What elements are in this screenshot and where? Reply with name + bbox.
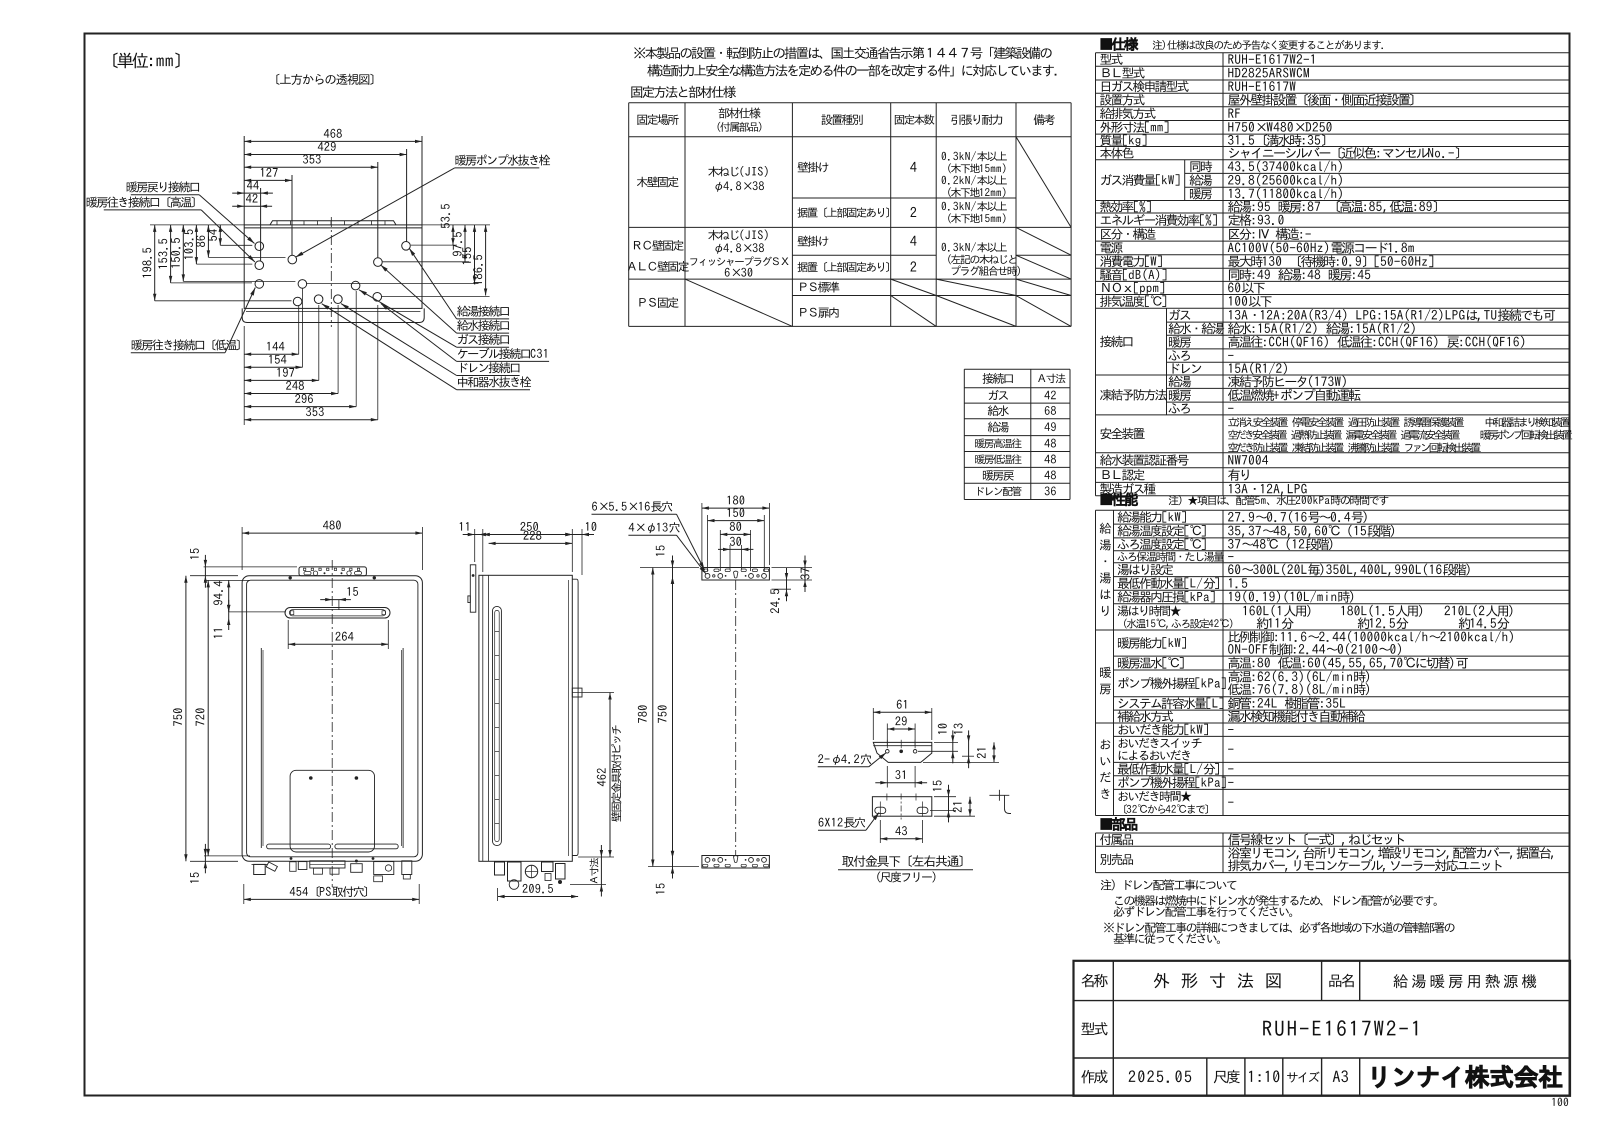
給湯接続口 — [457, 306, 509, 317]
port circle ケーブルC31 — [373, 293, 382, 302]
dim 15 — [190, 872, 199, 882]
dim 94.4 — [213, 581, 222, 605]
text 区分・構造 — [1101, 228, 1156, 240]
dim 21 — [953, 803, 962, 813]
front louver slot — [285, 608, 390, 619]
bottom dims of top view — [243, 326, 245, 425]
text − — [1228, 354, 1233, 357]
おいだき時間★ — [1118, 791, 1191, 802]
dim 54 left — [219, 225, 221, 245]
spec table grid — [1095, 53, 1097, 496]
暖房戻り接続口 — [127, 181, 199, 192]
text 35,37〜48,50,60℃ (15段階) — [1228, 525, 1394, 537]
dim 186.5 — [473, 255, 482, 285]
text 凍結予防ヒータ(173W) — [1228, 376, 1346, 388]
dim 15 rear top — [640, 567, 699, 569]
text 壁掛け — [798, 162, 829, 173]
耐力2a — [942, 201, 1007, 211]
給湯暖房用熱源機 — [1393, 974, 1536, 988]
text ドレン配管 — [978, 486, 1021, 496]
dim 264 — [287, 620, 289, 649]
text 13.7(11800kcal/h) — [1229, 188, 1342, 200]
page 100 — [1552, 1098, 1568, 1107]
text 給水 — [988, 405, 1009, 416]
取付金具下 — [842, 855, 962, 867]
text 13A・12A,LPG — [1229, 484, 1307, 496]
dim 54 — [208, 229, 217, 241]
耐力3c — [952, 266, 1020, 276]
text 給湯:95 暖房:87 〔高温:85,低温:89 — [1228, 201, 1437, 214]
A3 — [1333, 1070, 1348, 1082]
dim 186.5 — [485, 225, 487, 296]
spec sub 給湯 — [1190, 174, 1213, 186]
text ＰＳ固定 — [639, 297, 678, 308]
dim 43 — [879, 820, 881, 843]
text RF — [1228, 109, 1239, 118]
dim 127 — [261, 168, 278, 177]
dim 780 — [648, 567, 668, 569]
dim 720 front — [204, 579, 250, 581]
text 13A・12A:20A(R3/4) LPG:15 — [1229, 309, 1555, 322]
text 36 — [1045, 486, 1056, 495]
text 給排気方式 — [1100, 108, 1156, 120]
dim 353 top — [377, 162, 379, 258]
dim 750 front — [190, 575, 238, 577]
dim 150.5 left — [182, 225, 184, 282]
text ポンプ機外揚程[kPa] — [1118, 776, 1225, 788]
dim 11 — [460, 522, 469, 531]
text 信号線セット〔一式〕,ねじセット — [1228, 833, 1404, 846]
text 同時:49 給湯:48 暖房:45 — [1229, 269, 1370, 281]
spec sub ドレン — [1173, 363, 1202, 373]
名称 — [1081, 974, 1107, 987]
dim 15 bracket — [934, 796, 956, 798]
text RUH-E1617W — [1228, 81, 1295, 91]
フィッシャープラグSX — [690, 256, 788, 266]
text 給湯能力[kW] — [1118, 511, 1186, 523]
dim 127 — [291, 175, 293, 255]
text − — [1228, 767, 1233, 770]
text 接続口 — [1100, 336, 1132, 348]
text ＰＳ標準 — [800, 282, 839, 293]
text 設置種別 — [822, 114, 863, 125]
dim 209.5 — [497, 888, 499, 901]
text シャイニーシルバー〔近似色:マンセルNo.−〕 — [1229, 147, 1459, 159]
text 給水装置認証番号 — [1100, 454, 1189, 466]
dim 97.5 — [464, 225, 466, 262]
bracket upper outline — [873, 742, 932, 762]
port circle 暖房戻り — [255, 242, 264, 251]
dim 197 bottom — [318, 305, 320, 380]
dim 15 — [933, 780, 942, 790]
front bottom slots — [267, 844, 331, 849]
text 31.5〔満水時:35〕 — [1228, 134, 1325, 146]
暖房往き接続口高温 — [87, 197, 195, 208]
text 最低作動水量[L/分] — [1118, 763, 1219, 775]
text 外形寸法[mm] — [1100, 121, 1168, 133]
別売品1 — [1228, 847, 1553, 860]
dim 228 — [489, 542, 573, 544]
dim 153.5 left — [170, 225, 172, 283]
text 屋外壁掛設置〔後面・側面近接設置〕 — [1228, 94, 1413, 106]
dim 144 bottom — [298, 305, 300, 354]
grp3 だ — [1100, 772, 1110, 782]
耐力3a — [942, 242, 1007, 252]
text 付属品 — [1100, 834, 1133, 845]
dim 264 — [335, 632, 353, 641]
text NW7004 — [1228, 455, 1268, 465]
text 接続口 — [983, 373, 1013, 384]
dim 15 louver — [338, 600, 340, 610]
dim 21 bracket lower — [934, 815, 975, 817]
dim 53.5 — [452, 225, 454, 245]
中和器水抜き栓 — [458, 376, 531, 387]
木ねじ(JIS) — [708, 166, 767, 177]
text 最大時130 〔待機時:0.9〕[50-60Hz — [1228, 255, 1433, 267]
side top rear bracket — [470, 565, 476, 612]
text 60〜300L(20L毎)350L,400L,9 — [1228, 563, 1469, 576]
暖房能力1 — [1228, 631, 1513, 643]
front bottom fittings — [254, 864, 266, 874]
header ■仕様 — [1101, 37, 1138, 50]
dim 97.5 — [453, 232, 462, 256]
text 暖房温水[℃] — [1118, 657, 1184, 669]
note spec change — [1153, 40, 1383, 50]
dim 80 — [730, 522, 741, 531]
note perf — [1169, 495, 1389, 505]
grp1 は — [1101, 589, 1111, 599]
top view bottom tray — [242, 308, 424, 322]
text 最低作動水量[L/分] — [1118, 577, 1219, 589]
fixing table grid — [628, 103, 630, 327]
6x5.5x16長穴 — [592, 501, 672, 512]
dim 462 — [597, 768, 606, 786]
bracket lower outline — [872, 797, 931, 817]
text 19(0.19)(10L/min時) — [1229, 591, 1353, 603]
dim 43 — [895, 826, 907, 835]
dim 468 top — [243, 136, 245, 225]
暖房能力2 — [1228, 643, 1401, 655]
dim 21 — [977, 749, 986, 759]
dim 150.5 — [171, 238, 180, 268]
dim 61 — [897, 700, 906, 709]
dim 353 — [306, 407, 324, 416]
dim 180 — [701, 503, 703, 565]
型式 — [1081, 1022, 1107, 1035]
2-Φ4.2穴 — [818, 754, 871, 765]
text 43.5(37400kcal/h) — [1228, 160, 1342, 172]
text 2 — [910, 261, 916, 271]
text ガス — [989, 390, 1008, 400]
front top mounting plate — [299, 567, 366, 576]
おいだき時間 sub — [1124, 804, 1208, 814]
ガス接続口 — [458, 334, 509, 345]
dim 37 — [800, 568, 809, 579]
dim 296 bottom — [355, 291, 357, 407]
text − — [1228, 555, 1233, 558]
耐力2b — [948, 213, 1005, 223]
揚程1 — [1228, 671, 1369, 683]
front view outer body — [242, 576, 422, 862]
text 有り — [1228, 469, 1249, 481]
dim 209.5 — [523, 884, 553, 893]
dim 10 bracket — [934, 741, 958, 743]
text 騒音[dB(A)] — [1100, 269, 1166, 281]
dim 248 — [286, 381, 304, 390]
port circle ガス — [351, 281, 360, 290]
dim 480 front — [241, 527, 243, 570]
PS扉内 — [800, 307, 838, 318]
作成 — [1081, 1070, 1107, 1083]
ALC壁固定 — [628, 261, 689, 272]
text 固定場所 — [637, 114, 678, 125]
side view body — [479, 575, 572, 861]
text エネルギー消費効率[%] — [1101, 214, 1217, 226]
RC壁固定 — [634, 240, 684, 251]
φ4.8×38 — [715, 181, 764, 191]
単位mm — [113, 52, 179, 68]
port circle 暖房往き高温 — [255, 261, 264, 270]
front top screws — [289, 576, 292, 579]
dim 10 — [586, 522, 596, 531]
dim 44 — [247, 181, 259, 190]
dim 30 — [729, 545, 731, 569]
port circle 給湯 — [402, 242, 411, 251]
model number big — [1263, 1020, 1417, 1036]
text 68 — [1045, 406, 1056, 415]
dim 750 rear — [672, 577, 674, 858]
dim 44 — [260, 188, 262, 261]
dim 15 — [190, 548, 199, 558]
left vertical dims ext line — [150, 224, 244, 226]
dim 198.5 — [142, 248, 151, 278]
spec sub ふろ — [1169, 403, 1190, 413]
text 消費電力[W] — [1100, 255, 1162, 267]
dim 94.4 — [229, 611, 286, 613]
dim 10 side — [581, 529, 583, 575]
rear bottom bracket — [702, 856, 770, 869]
dim 15 — [348, 587, 358, 596]
品名 — [1329, 974, 1353, 987]
text 壁掛け — [798, 236, 829, 247]
text 備考 — [1034, 114, 1055, 125]
text ＢＬ型式 — [1103, 67, 1145, 78]
spec sub ふろ — [1169, 350, 1190, 360]
text ガス消費量[kW] — [1101, 174, 1179, 186]
text 48 — [1044, 439, 1056, 448]
別売品2 — [1228, 859, 1502, 872]
dim 42 — [232, 205, 272, 207]
side front door edge — [572, 579, 578, 855]
text 日ガス検申請型式 — [1102, 81, 1189, 93]
grp1 給 — [1100, 523, 1112, 534]
dim 153.5 — [158, 239, 167, 269]
text 27.9〜0.7(16号〜0.4号) — [1228, 511, 1367, 523]
front centerline — [331, 560, 333, 887]
safety line 2 — [1228, 429, 1572, 439]
dim 24.5 — [772, 588, 792, 590]
spec sub 暖房 — [1169, 389, 1191, 401]
dim 468 — [324, 129, 342, 138]
尺度 — [1214, 1070, 1240, 1084]
text HD2825ARSWCM — [1228, 68, 1309, 78]
dim 750 — [173, 708, 182, 725]
text 給湯温度設定[℃] — [1118, 525, 1206, 537]
safety line 1 — [1228, 417, 1570, 427]
text 4 — [910, 236, 916, 246]
dim 29 — [895, 716, 906, 725]
caption fixing — [631, 86, 736, 98]
dim 250 — [482, 529, 484, 572]
text 1.5 — [1229, 578, 1247, 588]
text ＮＯｘ[ppm] — [1102, 282, 1164, 294]
text 据置〔上部固定あり〕 — [797, 207, 888, 217]
front creases — [260, 648, 262, 848]
dim 86 left — [207, 225, 209, 258]
grp2 房 — [1100, 684, 1111, 695]
A寸法 label — [589, 858, 598, 883]
rear centerline — [735, 580, 737, 856]
text 100以下 — [1229, 296, 1272, 307]
text 質量[kg] — [1100, 134, 1146, 146]
text 低温燃焼+ポンプ自動運転 — [1228, 389, 1361, 401]
dim 61 — [872, 708, 874, 740]
dim 353 — [303, 155, 321, 164]
text 給水:15A(R1/2) 給湯:15A(R1/2 — [1228, 322, 1415, 334]
text ふろ保温時間・たし湯量 — [1117, 551, 1223, 561]
text 暖房高温往 — [975, 438, 1022, 448]
text 暖房能力[kW] — [1118, 637, 1186, 649]
dim 180 — [728, 495, 745, 504]
text 高温往:CCH(QF16) 低温往:CCH(QF — [1228, 336, 1524, 348]
spec sub 暖房 — [1190, 188, 1212, 200]
text 引張り耐力 — [951, 114, 1002, 125]
暖房往き接続口低温 — [132, 339, 240, 350]
parts table grid — [1095, 833, 1097, 873]
dim 11 front — [228, 600, 230, 630]
dim 154 bottom — [302, 288, 304, 367]
dim 80 — [719, 530, 721, 571]
おいだきスイッチ — [1118, 738, 1201, 748]
right vertical dims — [422, 224, 490, 226]
text 48 — [1044, 470, 1056, 479]
text 高温:80 低温:60(45,55,65,70℃ — [1228, 657, 1467, 669]
text 2 — [910, 207, 916, 217]
text 製造ガス種 — [1100, 483, 1156, 495]
上方からの透視図 — [276, 74, 373, 85]
dim 13 bracket — [962, 755, 974, 757]
dim 15 rear bottom — [672, 846, 674, 879]
耐力1d — [948, 187, 1005, 197]
部材仕様 — [719, 108, 761, 119]
note drain 5 — [1114, 933, 1220, 944]
text 4 — [910, 162, 916, 172]
dim 720 — [195, 708, 204, 725]
port circle ドレン — [334, 295, 343, 304]
text 37〜48℃ (12段階) — [1228, 538, 1332, 550]
によるおいだき — [1119, 750, 1190, 760]
text H750×W480×D250 — [1228, 122, 1331, 132]
6X12長穴 — [819, 817, 866, 828]
dim 11 — [214, 629, 223, 638]
dim 11 side — [474, 529, 476, 562]
L profile mark — [989, 794, 1009, 796]
text 定格:93.0 — [1228, 214, 1283, 226]
text 42 — [1044, 391, 1055, 400]
text 据置〔上部固定あり〕 — [797, 262, 888, 272]
text 29.8(25600kcal/h) — [1228, 174, 1342, 186]
dim 780 — [638, 705, 647, 722]
spec sub ガス — [1170, 309, 1191, 320]
dim 198.5 left — [154, 225, 156, 301]
壁固定金具取付ピッチ — [611, 725, 621, 821]
note drain 3 — [1114, 906, 1292, 917]
top view pipe-cover bump — [270, 221, 396, 225]
dim 31 — [886, 766, 888, 788]
bracket upper holes — [886, 750, 890, 754]
text ふろ温度設定[℃] — [1118, 538, 1206, 550]
port circle 給水 — [374, 258, 383, 267]
spec sub 同時 — [1190, 161, 1212, 173]
耐力1b — [948, 163, 1005, 173]
perf table grid — [1095, 510, 1097, 815]
spec sub 給湯 — [1169, 376, 1192, 388]
dim 103.5 — [184, 229, 193, 259]
dim 155 — [462, 247, 471, 264]
dim 31 — [895, 770, 905, 779]
尺度フリー — [877, 872, 935, 883]
dim 454 PS取付穴 — [290, 886, 367, 897]
210L — [1445, 605, 1513, 617]
rear top keyhole — [734, 571, 738, 578]
dim 197 — [277, 368, 294, 377]
木ねじ2 — [708, 230, 767, 241]
text 電源 — [1101, 242, 1123, 253]
text 排気温度[℃] — [1100, 295, 1166, 307]
dim 37 — [772, 567, 813, 569]
text AC100V(50-60Hz)電源コード1.8m — [1228, 242, 1414, 254]
dim 144 — [267, 342, 284, 351]
title block frame — [1074, 961, 1571, 1096]
text Ａ寸法 — [1038, 374, 1065, 384]
text 本体色 — [1100, 147, 1133, 158]
text − — [1228, 801, 1233, 804]
note drain title — [1101, 879, 1237, 890]
spec sub 給水・給湯 — [1169, 323, 1225, 335]
text 暖房低温往 — [975, 454, 1022, 464]
text 49 — [1044, 422, 1055, 431]
dim 15 — [656, 883, 665, 893]
dim 480 — [323, 520, 341, 529]
grp3 い — [1101, 757, 1111, 765]
grp2 暖 — [1100, 667, 1111, 678]
耐力1a — [942, 151, 1007, 161]
port circle port6 — [293, 297, 302, 306]
safety line 3 — [1228, 442, 1480, 452]
side bottom fittings — [495, 862, 505, 875]
dim 30 — [730, 537, 741, 546]
text 別売品 — [1100, 853, 1133, 865]
text 固定本数 — [895, 114, 935, 124]
dim 429 — [406, 149, 408, 242]
grp1 ・ — [1105, 560, 1107, 562]
付属部品 — [718, 122, 762, 132]
text ポンプ機外揚程[kPa] — [1118, 677, 1225, 689]
bracket lower slots — [875, 807, 886, 813]
text − — [1228, 781, 1233, 784]
text − — [1228, 748, 1233, 751]
耐力3b — [948, 254, 1016, 264]
